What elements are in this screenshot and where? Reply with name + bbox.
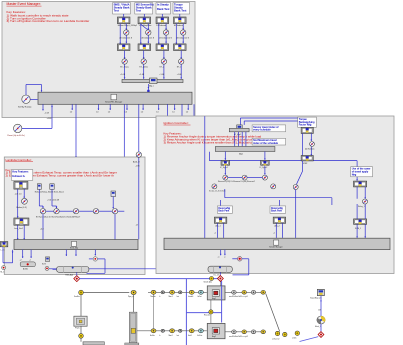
svg-text:Neg: Neg [352,173,357,176]
reverse note box 1 [217,206,232,213]
wire bus long left [204,116,206,238]
wires travel col lower [356,204,366,238]
task block bank4B [174,44,187,51]
svg-text:+1.08: +1.08 [139,74,144,76]
wire steady bank4 to mux [180,64,182,79]
row link vertical [153,294,155,328]
exhaust temp block 2 [50,184,54,190]
wire bank1B to steady [124,51,126,59]
svg-text:-1.08: -1.08 [45,113,49,115]
svg-text:Ic: Ic [159,296,160,298]
engine out row2 c3 [251,330,256,334]
svg-text:*1ProMap1Bar: *1ProMap1Bar [138,25,151,27]
lambda key text [6,168,117,178]
svg-text:Reverse1 (OR) IC<Reverse IC<(: Reverse1 (OR) IC<Reverse IC<(z0) Reverse… [218,180,255,183]
wire mgr to sync2 [264,152,266,160]
ignition title text [164,121,191,125]
wire torque2 diag [297,161,303,184]
stub wire x98.4 [96,104,99,113]
task block bank1A [117,17,130,24]
lambda below source [22,198,28,204]
wire engine link [210,300,212,324]
engine block 2 [207,323,225,338]
db hysteresis block [54,209,59,214]
wire lambda row links [46,210,113,212]
lambda task block B [14,218,29,225]
turbo diagonal [266,294,280,332]
engine out row2 c2 [242,330,247,334]
svg-text:Back Park: Back Park [218,210,230,213]
wires travel col [357,187,366,199]
svg-text:index of the schedule: index of the schedule [253,142,279,145]
svg-text:ACMe: ACMe [23,267,28,270]
task block bank4A [174,17,187,24]
svg-text:In Steady: In Steady [157,3,169,7]
svg-text:Lambda Controller:: Lambda Controller: [6,158,32,162]
exh flange B [283,332,287,336]
wire upper route B [244,121,312,127]
svg-text:AT_Mgr1: AT_Mgr1 [234,133,241,136]
svg-text:ICM2: ICM2 [303,163,307,165]
svg-text:Master1Day1_DSSq1: Master1Day1_DSSq1 [118,24,138,27]
svg-text:Factor Neg: Factor Neg [299,124,312,127]
steady block bank1 [122,59,127,64]
wire steady bank2 to mux [143,64,145,79]
airpath row1 ThrotVa [151,290,156,294]
wire alternator to diamond [320,324,322,331]
svg-text:Test: Test [114,9,119,13]
svg-text:Mgr1: Mgr1 [239,153,243,155]
svg-text:DS1wband: DS1wband [156,25,166,27]
stub lambda bar E [94,250,96,256]
wire sync1 to rev1 [224,165,226,175]
wire bar to ambient source [138,104,140,152]
svg-text:Exh1: Exh1 [188,335,192,337]
svg-text:1.0: 1.0 [108,112,111,114]
steady block bank4 [179,59,184,64]
wires adv2 to bar [273,223,283,238]
wire reset to bar [22,105,53,129]
wire delay bank2 down [147,35,149,43]
svg-text:Lam_Sw1: Lam_Sw1 [14,228,24,230]
engine out row1 c3 [251,290,256,294]
svg-text:+1: +1 [214,233,216,235]
fuel drop line [80,295,82,316]
wire diamond to engine [220,281,222,286]
svg-text:1.0: 1.0 [141,112,144,114]
wire route mid [209,152,358,181]
delay block bank1 [124,30,129,35]
heat port [209,310,213,314]
ignition manager bar [164,238,390,249]
svg-text:ReverseNg: ReverseNg [271,207,283,210]
IC sync block 2 [261,160,270,165]
fuel tank box [74,316,87,329]
wire bar to ignition bus C [193,104,195,238]
alternator source block [310,289,324,299]
svg-text:1.0: 1.0 [186,112,189,114]
svg-text:Man2: Man2 [169,335,173,337]
torque note box [298,117,317,127]
max note box [252,138,286,145]
lambda controller container box [4,157,145,275]
svg-text:+1.08: +1.08 [120,74,125,76]
stub ignition bar B [224,250,226,259]
lambda outside reset icon [2,266,6,270]
set rate source [22,95,30,103]
wire steady bank3 to mux [163,64,165,79]
svg-text:Eng1: Eng1 [212,298,216,300]
svg-text:+1.08: +1.08 [177,74,182,76]
label box bank1 [113,3,131,15]
wire steady bank1 to mux [124,64,126,79]
label box bank4 [173,3,190,15]
sync connector [210,277,214,281]
or2 block [293,185,298,190]
wire sync2 to rev2 [264,165,266,175]
wire ignition amb down [167,158,169,238]
wire bank1 left drop [119,24,121,44]
IC sync block 1 [221,160,230,165]
svg-text:+0.5 1.0: +0.5 1.0 [15,194,22,196]
lambda outside start block [0,242,8,247]
svg-text:ReverseNg: ReverseNg [218,207,230,210]
lambda setter icon [42,257,50,266]
svg-text:1.0: 1.0 [172,112,175,114]
stub wire x110.2 [108,104,111,113]
svg-text:Man1: Man1 [169,296,173,298]
fuel rail line [83,292,129,294]
stub wire x158.7 [156,104,159,113]
svg-text:Send1 (b1): Send1 (b1) [204,282,213,284]
tank connector [79,334,84,339]
svg-text:Send_FMI_Manager: Send_FMI_Manager [105,101,123,104]
wire delay bank4 down [182,35,184,43]
exhaust row bst [179,329,182,332]
wire pipe to diamond [76,272,78,275]
exhaust row Exh1 [189,329,194,333]
reverse note box 2 [270,206,286,213]
reset source [14,124,22,132]
ignition modulator circle [237,257,242,262]
wire bank3B to steady [163,51,165,59]
task block bank1B [117,44,130,51]
cylinder bottom pad [125,343,139,345]
wire delay bank1 down [125,35,127,43]
torque block 1 [301,127,313,133]
svg-text:SS1wband: SS1wband [174,25,184,27]
svg-text:+4.0: +4.0 [40,228,44,230]
steady block bank3 [161,59,166,64]
wire mux to main bar [147,84,149,92]
wire tank to bar [80,338,82,342]
wire bank4 to delay [182,24,184,30]
relay block [363,199,368,204]
svg-text:+1: +1 [218,257,220,259]
mux lambda block [112,209,117,214]
ignition controller container box [156,116,394,274]
wire hold block down [112,197,114,209]
wire bar to lambda bus A [123,104,125,239]
lambda note box [11,170,32,181]
inlet oval [131,290,136,294]
airpath row1 Man1 [170,290,175,294]
svg-text:+4.08: +4.08 [47,118,52,120]
wire muxT link [118,210,125,212]
wire bank4B to steady [180,51,182,59]
wire inlet to cylinder [133,295,135,313]
svg-text:IC<z0_1 1-ln IC?2-ln: IC<z0_1 1-ln IC?2-ln [209,189,226,192]
survey note box [252,125,286,132]
svg-text:Mach_1: Mach_1 [315,326,321,328]
wire mgr to sync1 [224,152,226,160]
svg-text:+1: +1 [273,233,275,235]
lambda reset icon [45,266,49,270]
svg-text:Key Features: Key Features [12,170,29,174]
row2 out rail [225,331,266,333]
exhaust row Man2 [170,329,175,333]
delay block bank4 [181,30,186,35]
wire bank1 to delay [125,24,127,30]
ignition top mini block [237,125,243,130]
svg-text:1.0: 1.0 [96,112,99,114]
svg-text:TSM_A(z): TSM_A(z) [65,274,73,277]
travel block 1 [354,181,367,187]
reverse1 block [223,175,228,180]
master key features text [7,10,90,23]
tail connector [295,331,299,335]
label box bank3 [156,3,171,15]
row1 rail segments [148,291,207,293]
wire lambda to ignition pipe [49,268,208,270]
tank bottom bar [83,342,104,345]
stub lambda bar A [20,250,24,262]
wire bar to lambda errTwo [74,104,77,208]
ambient source [136,152,141,157]
row1 out rail [225,291,266,293]
stub wire x143.1 [141,104,144,113]
svg-text:+8: +8 [136,224,138,226]
svg-text:1.0: 1.0 [125,112,128,114]
row2 rail segments [137,330,207,332]
travel note box [351,167,373,177]
stub wire x188.2 [186,104,189,113]
wires adv1 to bar [214,223,224,238]
wire pipe drop [219,272,221,275]
lambda manager bar [14,240,138,250]
wire modulator loop [232,259,249,275]
wire errTwo to bar [40,214,44,240]
rotation block [310,142,315,147]
stub under bar left [42,104,49,114]
or center block [242,175,247,180]
ignition mgr bar [215,147,275,152]
lambda ACMe block [20,262,35,270]
svg-text:Adv_1: Adv_1 [216,225,221,228]
wire upper route A [240,118,303,127]
wires upper bar to mgr bar [235,132,246,147]
wires reverse row [228,177,263,179]
ignition upper bar [229,128,249,131]
engine blue drop 2 overlay [221,286,223,300]
adv block 2 [273,217,285,223]
svg-text:-1: -1 [224,257,226,259]
ignition key features text [164,132,265,145]
svg-text:Test: Test [136,9,141,13]
steady block bank2 [141,59,146,64]
label box bank2 [135,3,154,15]
svg-text:1.0: 1.0 [156,112,159,114]
svg-text:Below (0.5): Below (0.5) [17,207,27,209]
wire set rate loop up [26,85,42,96]
svg-text:Sender Manager: Sender Manager [269,247,283,249]
wire or2 to bar [295,190,297,238]
exh flange A [275,331,279,335]
mux center block [150,78,158,84]
air cylinder [129,312,137,343]
svg-text:Adv_2: Adv_2 [275,225,280,228]
wire muxT to bar [114,214,116,240]
engine blue drop 1 [185,279,187,345]
svg-text:Bank Test: Bank Test [157,7,170,11]
svg-text:Set My Rate(s): Set My Rate(s) [18,106,32,109]
diagonal wire bank2 [141,24,149,30]
fuel connector [79,290,84,295]
lambda output diamond [74,276,80,282]
wire outside loop [3,247,13,263]
wire bar to ignition amb [167,104,169,152]
wire into pipe left [53,268,57,270]
svg-text:Ic: Ic [159,335,160,337]
wire bank2B to steady [143,51,145,59]
wire bank4 left drop [175,24,177,44]
wire set rate into bar [30,98,37,100]
svg-text:ST_c: ST_c [159,67,164,69]
lambda title text [6,158,34,162]
stub wire x72.2 [70,104,73,113]
svg-text:Master Event Manager:: Master Event Manager: [7,2,41,6]
ignition DC pipe [208,266,232,276]
task block bank3B [156,44,169,51]
wire bank1 label to block [123,14,125,17]
svg-text:Back Park: Back Park [271,210,283,213]
nomTwo switch block [73,209,78,214]
torque block 2 [301,156,313,161]
svg-text:(0) Rotation: (0) Rotation [305,147,314,150]
master event manager container box [2,2,195,118]
stub lambda bar D [75,250,77,256]
svg-text:Eng2: Eng2 [212,336,216,338]
switch M block [93,209,98,214]
svg-text:+1.08: +1.08 [159,74,164,76]
stub lambda bar C [65,250,67,256]
svg-text:IC_Sync1: IC_Sync1 [220,167,228,169]
svg-text:1.0: 1.0 [70,112,73,114]
svg-text:+ Db 1.0e4.08: + Db 1.0e4.08 [47,200,59,202]
lambda task block A [14,182,28,190]
wire bank3 to delay [165,24,167,30]
wire reset loop lambda [87,259,106,273]
wire alternator column [318,296,322,316]
engine block 1 [207,286,225,300]
exhaust row ExhVa [151,329,156,333]
airpath row1 bst [179,291,182,294]
wire bank4 label to block [179,14,181,17]
wires torque col [303,133,313,155]
svg-text:Ignition Controller:: Ignition Controller: [164,121,189,125]
stub ignition bar A [218,250,222,259]
ignition output diamond [218,276,224,282]
engine out row2 c1 [232,330,237,334]
wire delay bank3 down [165,35,167,43]
task block bank2B [138,44,151,51]
wires lambda task B to bar [17,225,25,239]
airpath row1 Ic [161,291,164,294]
ignition ambient block [165,153,170,158]
svg-text:-1.96: -1.96 [135,166,139,168]
svg-text:every schedule: every schedule [253,129,271,132]
errTwo compare block [40,209,45,214]
engine blue branch [186,312,221,314]
lambda reset circle right [93,257,97,261]
svg-text:ExhVa: ExhVa [150,335,155,337]
wires lambda task A down [17,189,25,218]
wire bank2 left drop [140,24,142,44]
svg-text:Exhaust b.: Exhaust b. [12,174,25,178]
exhaust row ExPort [198,329,203,333]
alternator diamond [318,332,324,338]
wire exhaust1 down [39,189,44,208]
svg-text:IC_Sync2: IC_Sync2 [260,167,268,169]
wire bank2 to delay [147,24,149,30]
svg-text:SCM_1: SCM_1 [355,228,361,230]
adv block 1 [214,217,226,223]
svg-text:Bank Test: Bank Test [174,9,187,13]
engine out row1 c4 [261,290,266,294]
engine out row2 c4 [261,330,266,334]
svg-text:Send_Mgr: Send_Mgr [70,247,79,249]
engine blue rail [79,278,218,280]
reverse2 block [262,175,267,180]
lambda TSM pipe [57,267,89,277]
kiz compare 2 [271,184,276,189]
svg-text:3) Return Anchor Angle until K: 3) Return Anchor Angle until KI comes sm… [164,141,265,145]
airpath row1 InPort [198,290,203,294]
airpath row1 Intake1 [189,290,194,294]
lambda hold block [111,191,116,197]
master title text [7,2,42,6]
task block bank3A [156,17,169,24]
send FMI manager bar [38,92,192,104]
svg-text:3) Turn off Ignition Controlle: 3) Turn off Ignition Controller then tur… [7,19,90,23]
svg-text:M_1: M_1 [1,272,5,274]
alternator machine [317,316,326,324]
svg-text:FTank: FTank [75,328,80,330]
wire bar to ignition bus B [181,104,183,238]
wire route low [221,189,332,206]
wire amb to bar [136,157,139,239]
engine out row1 c2 [242,290,247,294]
stub wire x174.7 [172,104,175,113]
svg-text:FuelSrc: FuelSrc [74,295,80,298]
wire bank2 label to block [143,14,145,17]
svg-text:-1: -1 [29,259,31,261]
wire diamond diagonal [300,337,319,342]
wire exhaust2 down [52,189,57,208]
mux bar [122,79,183,82]
delay block bank2 [146,30,151,35]
svg-text:o1 flan. b2: o1 flan. b2 [272,338,280,340]
